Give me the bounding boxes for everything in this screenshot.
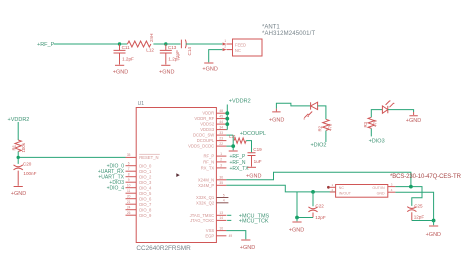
svg-text:+GND: +GND: [159, 70, 174, 76]
svg-text:+GND: +GND: [269, 117, 284, 123]
pin IN/OUT crystal: [330, 191, 336, 193]
svg-text:+GND: +GND: [202, 67, 217, 73]
wire R2 down: [325, 131, 327, 142]
svg-text:+GND: +GND: [11, 191, 26, 197]
svg-text:CC2640R2FRSMR: CC2640R2FRSMR: [136, 245, 191, 252]
svg-text:DIO_9: DIO_9: [139, 213, 152, 218]
svg-text:3: 3: [220, 164, 222, 168]
svg-text:R2: R2: [318, 125, 323, 131]
LED D2: [382, 106, 387, 113]
pin RF_N: [216, 161, 226, 163]
capacitor C11: [114, 44, 126, 65]
svg-text:33: 33: [219, 131, 223, 135]
svg-text:+VDDR2: +VDDR2: [229, 99, 251, 105]
junction VDDS2: [225, 122, 229, 126]
svg-text:X24M_P: X24M_P: [198, 183, 214, 188]
resistor R1: [15, 140, 21, 152]
svg-text:1: 1: [224, 39, 226, 43]
wire C14 to antenna: [186, 43, 223, 45]
pin VDDR: [216, 112, 226, 114]
svg-text:35: 35: [219, 181, 223, 185]
svg-text:L11: L11: [229, 134, 236, 139]
svg-text:13: 13: [219, 211, 223, 215]
svg-text:+DCOUPL: +DCOUPL: [240, 131, 266, 137]
svg-text:4: 4: [223, 199, 225, 203]
svg-text:L12: L12: [146, 48, 154, 53]
wire ground to LED1: [276, 103, 310, 108]
pin VDDS_DCDC: [216, 145, 226, 147]
svg-text:49: 49: [229, 234, 233, 238]
svg-text:VDDS2: VDDS2: [200, 122, 215, 127]
pin DIO_5: [126, 192, 137, 194]
wire JTAG_TMSC stub: [227, 214, 231, 216]
svg-text:+GND: +GND: [426, 232, 441, 238]
svg-text:12pF: 12pF: [414, 215, 425, 220]
ground LED1 left: [272, 109, 280, 112]
inductor L12: [120, 43, 166, 45]
pin DIO_3: [126, 181, 137, 183]
svg-text:1.2pF: 1.2pF: [122, 56, 134, 61]
pin DIO_9: [126, 214, 137, 216]
junction VDDR: [225, 111, 229, 115]
wire VSS to ground: [226, 231, 245, 240]
svg-text:OUT/IN: OUT/IN: [372, 186, 385, 190]
capacitor C13: [160, 44, 172, 65]
svg-text:34: 34: [219, 125, 223, 129]
svg-text:1uF: 1uF: [254, 159, 262, 164]
pin DIO_0: [126, 165, 137, 167]
ground under C11: [115, 64, 124, 66]
svg-text:DIO_2: DIO_2: [139, 174, 152, 179]
resistor R3: [368, 117, 374, 128]
svg-text:16: 16: [219, 226, 223, 230]
pin GND crystal: [388, 191, 396, 193]
capacitor C22: [312, 192, 314, 206]
pin X24M_P: [216, 184, 226, 186]
wire OUT/IN to C25: [395, 187, 422, 206]
pin DIO_7: [126, 203, 137, 205]
junction C22 top: [311, 190, 315, 194]
svg-text:DIO_8: DIO_8: [139, 207, 152, 212]
pin X24M_N: [216, 179, 226, 181]
svg-text:10: 10: [127, 184, 131, 188]
svg-text:DCDC_SW: DCDC_SW: [193, 133, 214, 138]
svg-text:470: 470: [327, 123, 332, 131]
svg-text:5: 5: [223, 193, 225, 197]
wire X24M_N to crystal: [226, 172, 411, 186]
wire R1 to RESET_N: [18, 152, 125, 158]
svg-text:100nF: 100nF: [23, 171, 36, 176]
svg-text:X32K_Q2: X32K_Q2: [196, 200, 215, 205]
svg-text:RX_TX: RX_TX: [201, 165, 215, 170]
svg-text:GND: GND: [377, 192, 385, 196]
svg-text:35: 35: [127, 153, 131, 157]
svg-text:1pF: 1pF: [175, 50, 180, 58]
svg-text:C19: C19: [253, 147, 262, 152]
pin X32K_Q1: [216, 197, 228, 199]
wire VDDR rail: [225, 105, 228, 130]
pin JTAG_TMSC: [216, 214, 226, 216]
svg-text:7: 7: [128, 167, 130, 171]
svg-text:23: 23: [219, 136, 223, 140]
svg-text:11: 11: [127, 189, 131, 193]
ground under C13: [161, 64, 170, 66]
svg-text:DIO_4: DIO_4: [139, 185, 152, 190]
svg-text:14: 14: [219, 216, 223, 220]
pin DIO_6: [126, 198, 137, 200]
junction at C13: [164, 42, 167, 45]
ground under NC: [204, 62, 213, 64]
ground under C20: [14, 186, 23, 188]
cursor mark: [176, 173, 180, 177]
svg-text:DIO_1: DIO_1: [139, 169, 152, 174]
pin DIO_4: [126, 187, 137, 189]
svg-text:RESET_N: RESET_N: [139, 155, 158, 160]
wire DCDC_SW down: [226, 135, 233, 150]
ground under VSS: [241, 239, 250, 241]
svg-text:9: 9: [128, 178, 130, 182]
svg-text:2: 2: [224, 45, 226, 49]
svg-text:+GND: +GND: [289, 228, 304, 234]
wire R3 to LED2: [371, 110, 382, 118]
pin DCOUPL: [216, 140, 226, 142]
wire C25 bottom to ground: [412, 220, 434, 222]
pin VDDR_RF: [216, 118, 226, 120]
svg-text:+GND: +GND: [246, 173, 261, 179]
svg-text:2nH: 2nH: [149, 34, 154, 42]
ground crystal: [433, 221, 435, 226]
svg-text:1: 1: [220, 152, 222, 156]
svg-text:*AH312M245001/T: *AH312M245001/T: [262, 31, 315, 37]
svg-text:26: 26: [127, 211, 131, 215]
wire JTAG_TCKC stub: [227, 219, 231, 221]
svg-text:C13: C13: [168, 45, 177, 50]
pin EGP: [216, 235, 226, 237]
svg-text:R3: R3: [363, 121, 368, 127]
junction at C11: [118, 42, 121, 45]
svg-text:DIO_3: DIO_3: [139, 180, 152, 185]
svg-text:EGP: EGP: [205, 233, 214, 238]
svg-text:45: 45: [219, 114, 223, 118]
svg-text:*BCS-230-10-47Q-CES-TR: *BCS-230-10-47Q-CES-TR: [390, 174, 462, 180]
svg-text:+RX_TX: +RX_TX: [230, 166, 250, 172]
junction ground C22: [295, 216, 299, 220]
ground under C19: [247, 166, 256, 168]
svg-text:20: 20: [127, 195, 131, 199]
capacitor C14 series: [181, 40, 186, 49]
wire LED2 to ground: [388, 110, 414, 112]
antenna pin 1: [227, 43, 233, 45]
ground under C22: [296, 218, 298, 222]
ground bar DCDC: [229, 150, 238, 152]
pin DCDC_SW: [216, 134, 226, 136]
capacitor C20: [17, 157, 19, 164]
pin RESET_N: [126, 156, 137, 158]
wire C22 to ground: [297, 192, 313, 218]
svg-text:C14: C14: [187, 47, 192, 56]
pin DIO_2: [126, 176, 137, 178]
wire L11 to C19: [246, 141, 251, 153]
svg-text:DIO_5: DIO_5: [139, 191, 152, 196]
junction at C20: [17, 156, 20, 159]
junction VDDS_DCDC: [231, 144, 235, 148]
pin RX_TX: [216, 167, 226, 169]
junction X24M_N join: [409, 185, 413, 189]
antenna ANT1 body: [233, 39, 263, 56]
pin VSS: [216, 230, 226, 232]
svg-text:C25: C25: [414, 203, 423, 208]
svg-text:C11: C11: [122, 45, 131, 50]
LED D1 arrows: [304, 112, 312, 118]
svg-text:DIO_0: DIO_0: [139, 163, 152, 168]
pin DIO_1: [126, 170, 137, 172]
wire LED1 to R2: [318, 106, 326, 119]
svg-text:NC: NC: [339, 186, 345, 190]
wire crystal GND pin to ground: [395, 192, 433, 220]
inductor L11: [234, 138, 246, 143]
svg-text:VDDR_RF: VDDR_RF: [194, 116, 214, 121]
capacitor C19: [248, 153, 256, 167]
svg-text:+DIO3: +DIO3: [369, 138, 385, 144]
svg-text:*ANT1: *ANT1: [262, 25, 280, 31]
LED D1: [311, 102, 318, 109]
pin X32K_Q2: [216, 202, 228, 204]
wire DIO3 to R3: [370, 128, 372, 136]
svg-text:36: 36: [219, 176, 223, 180]
svg-text:470: 470: [373, 119, 378, 127]
svg-text:+GND: +GND: [406, 118, 421, 124]
pin VDDS3: [216, 129, 226, 131]
svg-text:+DIO2: +DIO2: [310, 143, 326, 149]
junction ground crystal: [432, 219, 436, 223]
svg-text:+RF_P: +RF_P: [37, 42, 55, 48]
svg-text:DIO_6: DIO_6: [139, 196, 152, 201]
svg-text:6: 6: [128, 162, 130, 166]
svg-text:DCOUPL: DCOUPL: [197, 138, 215, 143]
resistor R2: [323, 119, 329, 130]
svg-text:+DIO_4: +DIO_4: [107, 186, 125, 192]
svg-text:R1: R1: [11, 144, 16, 150]
junction VDDR_RF: [225, 117, 229, 121]
svg-text:48: 48: [219, 109, 223, 113]
capacitor C25: [407, 207, 416, 221]
pin RF_P: [216, 155, 226, 157]
pin DIO_8: [126, 209, 137, 211]
svg-text:RF_P: RF_P: [203, 154, 214, 159]
svg-text:VDDS3: VDDS3: [200, 127, 215, 132]
svg-text:X32K_Q1: X32K_Q1: [196, 195, 215, 200]
svg-text:+GND: +GND: [240, 245, 255, 251]
op IC U1 body: [136, 108, 216, 243]
svg-text:U1: U1: [138, 101, 145, 107]
svg-text:RF_N: RF_N: [203, 159, 214, 164]
svg-text:22: 22: [219, 142, 223, 146]
svg-text:FEED: FEED: [235, 43, 246, 48]
svg-text:VDDS_DCDC: VDDS_DCDC: [188, 144, 214, 149]
wire RF_P to C11: [54, 43, 120, 45]
wire VDDR2 to R1: [17, 122, 19, 140]
svg-text:100k: 100k: [21, 142, 26, 152]
wire C13 to C14: [166, 43, 181, 45]
svg-text:C22: C22: [315, 204, 324, 209]
wire antenna NC to ground: [209, 50, 223, 63]
pin NC crystal: [330, 186, 336, 188]
svg-text:IN/OUT: IN/OUT: [339, 192, 352, 196]
svg-text:12pF: 12pF: [315, 215, 326, 220]
LED D2 arrows: [386, 101, 394, 107]
svg-text:21: 21: [127, 200, 131, 204]
wire X24M_P to crystal: [226, 185, 335, 192]
ground LED2: [409, 112, 417, 116]
svg-text:44: 44: [219, 120, 223, 124]
svg-text:+GND: +GND: [113, 70, 128, 76]
svg-text:8: 8: [128, 173, 130, 177]
svg-text:24: 24: [127, 206, 131, 210]
svg-text:2: 2: [220, 158, 222, 162]
crystal Y1 body: [336, 185, 388, 198]
svg-text:NC: NC: [235, 48, 241, 53]
pin OUT/IN crystal: [388, 186, 396, 188]
svg-text:DIO_7: DIO_7: [139, 202, 152, 207]
antenna pin 2: [227, 49, 233, 51]
svg-text:JTAG_TCKC: JTAG_TCKC: [190, 218, 214, 223]
pin JTAG_TCKC: [216, 219, 226, 221]
svg-text:VDDR: VDDR: [202, 111, 214, 116]
svg-text:+MCU_TCK: +MCU_TCK: [239, 219, 269, 225]
svg-text:C20: C20: [23, 161, 32, 166]
pin VDDS2: [216, 123, 226, 125]
svg-text:X24M_N: X24M_N: [198, 177, 214, 182]
